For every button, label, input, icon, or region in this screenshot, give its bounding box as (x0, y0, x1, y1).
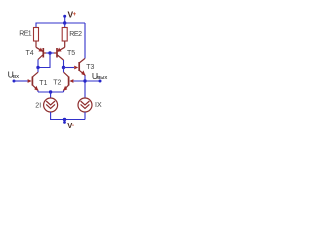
node V- junction (63, 118, 66, 121)
arrow T3 emitter (npn) (81, 70, 85, 75)
wire T4 collector to node (37, 60, 39, 68)
wire right rail from top to T3 collector (84, 23, 86, 58)
arrow T1 emitter (npn) (34, 86, 38, 91)
resistor RE2 (62, 28, 67, 42)
wire diode connection loop (38, 53, 50, 68)
transistor T4 (pnp, mirror diode side) (36, 41, 46, 60)
wire T2 collector up (63, 68, 65, 73)
wire T2 emitter down to common rail (63, 91, 65, 93)
wire V- stem (64, 120, 66, 122)
svg-text:2I: 2I (35, 102, 41, 109)
wire T1 collector up (37, 68, 39, 73)
wire T4-T5 base link (46, 52, 54, 54)
wire IX bottom to V- rail (84, 112, 86, 120)
svg-text:RE2: RE2 (69, 31, 82, 38)
current source 2I (44, 98, 58, 112)
resistor RE1 (34, 28, 39, 42)
svg-text:T2: T2 (53, 80, 61, 87)
svg-text:T1: T1 (39, 80, 47, 87)
node left collector junction (36, 66, 39, 69)
wire T1 emitter down to common rail (37, 91, 39, 93)
arrow input into T1 base (28, 79, 32, 83)
transistor T5 (pnp) (54, 41, 65, 60)
transistor T1 (npn) (32, 72, 38, 91)
arrow feedback into T2 base (69, 79, 73, 83)
node V+ terminal dot (63, 15, 66, 18)
wire 2I bottom to V- rail (51, 112, 85, 120)
background (0, 0, 120, 147)
wire T2 base to output node (73, 80, 100, 82)
svg-text:-: - (72, 123, 74, 129)
wire T3 base feed (64, 67, 75, 69)
arrow T3 base input (74, 66, 78, 70)
svg-text:IX: IX (95, 102, 102, 109)
arrow T5 emitter (pnp) (57, 48, 62, 52)
arrow T2 emitter (npn) (63, 86, 67, 91)
wire RE2 top lead (64, 23, 66, 28)
svg-text:+: + (73, 12, 77, 18)
wire tail to 2I source (50, 92, 52, 98)
wire common emitter rail (38, 91, 64, 93)
wire T5 collector to node (63, 60, 65, 68)
svg-text:T4: T4 (26, 50, 34, 57)
node output terminal dot (99, 80, 102, 83)
wire top rail (36, 23, 85, 28)
node input terminal dot (13, 80, 16, 83)
node junction V+/rail (63, 21, 66, 24)
node output junction (83, 79, 86, 82)
arrow T4 emitter (pnp) (38, 48, 43, 52)
chevrons IX (81, 101, 90, 105)
svg-text:RE1: RE1 (19, 31, 31, 38)
wire T3 emitter down (84, 76, 86, 99)
transistor T2 (npn mirrored) (64, 72, 69, 91)
wire V+ stem (64, 17, 66, 23)
transistor T3 (npn emitter follower) (79, 58, 85, 76)
svg-text:T5: T5 (67, 50, 75, 57)
chevrons 2I (46, 101, 55, 105)
node base junction (48, 51, 51, 54)
current source IX (78, 98, 92, 112)
node right collector junction (62, 66, 65, 69)
svg-text:вых: вых (97, 75, 107, 81)
wire input to T1 base (14, 80, 28, 82)
node tail junction (49, 90, 52, 93)
svg-text:вх: вх (13, 74, 19, 80)
node V- terminal dot (63, 121, 66, 124)
